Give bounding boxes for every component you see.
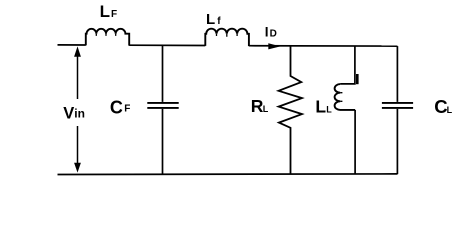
svg-text:I: I xyxy=(265,25,269,40)
capacitor CF plates xyxy=(147,103,178,108)
wire top rail middle segment xyxy=(129,44,205,46)
inductor LL cusp ticks xyxy=(340,93,342,102)
svg-text:C: C xyxy=(110,97,123,117)
Vin arrow lower shaft xyxy=(77,126,79,164)
inductor LL coil xyxy=(335,84,356,110)
Vin arrow lower head xyxy=(74,163,81,173)
inductor Lf cusp ticks xyxy=(217,34,238,37)
svg-text:L: L xyxy=(326,105,332,115)
inductor LL bottom lead xyxy=(354,110,356,174)
inductor LL thick bar xyxy=(356,74,359,84)
svg-text:L: L xyxy=(315,97,326,117)
capacitor CL bottom lead xyxy=(396,109,398,174)
inductor LF xyxy=(86,29,129,46)
Vin arrow upper shaft xyxy=(77,56,79,99)
wire bottom rail xyxy=(58,173,398,176)
svg-text:F: F xyxy=(111,9,117,20)
svg-text:L: L xyxy=(263,104,269,114)
inductor LL top lead xyxy=(340,46,355,84)
resistor RL xyxy=(279,46,302,174)
capacitor CL top lead xyxy=(396,46,398,102)
svg-text:L: L xyxy=(206,11,215,28)
svg-text:L: L xyxy=(100,2,110,21)
inductor Lf xyxy=(205,29,249,46)
svg-text:F: F xyxy=(124,103,130,114)
svg-text:V: V xyxy=(63,104,74,122)
svg-text:in: in xyxy=(74,107,85,121)
capacitor CF bottom lead xyxy=(162,109,164,174)
svg-text:D: D xyxy=(270,29,277,40)
svg-text:C: C xyxy=(434,96,447,117)
svg-text:f: f xyxy=(217,16,221,27)
wire top rail right segment xyxy=(249,45,398,47)
capacitor CL plates xyxy=(382,103,413,108)
current arrow ID head xyxy=(268,43,280,49)
svg-text:L: L xyxy=(447,105,453,115)
capacitor CF top lead xyxy=(162,45,164,102)
inductor LF cusp ticks xyxy=(96,34,115,36)
wire top rail left segment xyxy=(58,44,86,46)
Vin arrow upper head xyxy=(74,46,81,56)
